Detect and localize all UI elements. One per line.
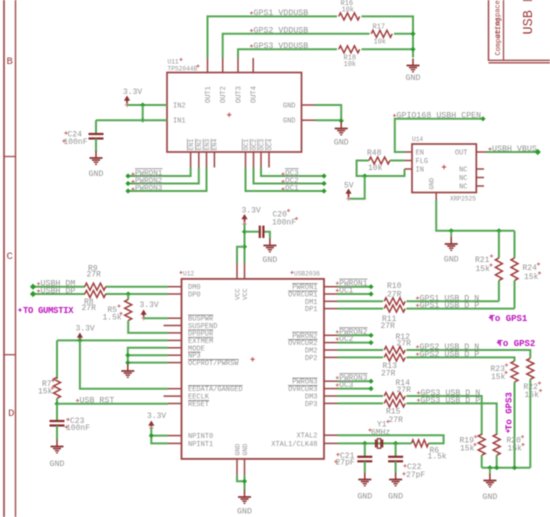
ground under C23 [50,440,65,470]
U12 pin NP3 [168,352,201,361]
net label PWRON3 [336,374,368,383]
U12 pin DP2 [305,355,338,363]
node OC2 wire [338,340,374,345]
crystal Y1 [376,439,383,449]
supply 3.3V for U11 IN [123,88,142,107]
svg-text:GND: GND [237,508,252,517]
U11 pin IN2 [153,103,186,111]
wire GPS3_USB_D_P to R20 column [406,403,496,435]
node PWRON2 wire to EN2 [125,168,198,187]
net label USBH_DM [37,280,75,289]
svg-text:15k: 15k [524,273,539,282]
capacitor C24 [89,134,104,139]
R19 value 15k [460,443,477,454]
U12 pin PWRON3 [292,378,337,387]
U12 pin DM0 [168,284,201,292]
wire junction down to IN1 [142,105,144,120]
wire R48 to FLG [390,160,405,162]
wire DP3 GPS3_USB_D_P [338,402,384,404]
net label GPIO168_USBH_CPEN [393,112,481,121]
svg-text:3.3V: 3.3V [123,88,142,97]
svg-text:3.3V: 3.3V [76,325,95,334]
svg-text:R24: R24 [523,264,538,273]
U12 pin OVRCUR1 [288,291,338,300]
label To GPS2 [497,339,536,349]
U14 pin GND [429,178,437,200]
R7 reference label [42,379,55,389]
frame left border [4,0,16,517]
R23 reference label [491,363,509,374]
title block frame [489,0,550,63]
junction on IN1 wire [140,118,145,123]
svg-text:USB H: USB H [522,0,537,35]
U12 pin DM3 [305,394,338,402]
svg-text:OUT2: OUT2 [220,86,228,103]
capacitor C23 [50,421,65,426]
svg-text:OC1: OC1 [243,139,250,151]
U14 pin NC 3 [459,184,484,192]
svg-text:OC3: OC3 [339,382,353,390]
C23 value 100nF [65,424,91,433]
U12 pin DP1 [305,306,338,314]
resistor R19 with column wire [478,434,485,468]
svg-text:EN4: EN4 [212,139,219,151]
U11 pin OC2 [250,139,257,168]
svg-text:To GPS3: To GPS3 [505,392,515,430]
R21 reference label [475,254,493,265]
svg-text:OC1: OC1 [339,288,353,296]
resistor R22 with column wire [527,358,534,467]
svg-text:10k: 10k [342,7,355,15]
R19 reference label [460,435,478,446]
op IC U11 TPS2044B body [167,73,302,153]
svg-text:27R: 27R [381,322,396,331]
wire GPS2_USB_D_N to R22 column [406,350,530,358]
svg-text:15k: 15k [525,391,540,400]
wire DM2 GPS2_USB_D_N [338,349,384,351]
U11 pin GND lower [283,118,316,126]
svg-text:IN: IN [416,167,424,175]
svg-text:GND: GND [283,103,296,111]
wire bottom right ground rail [482,465,531,470]
R23 value 15k [491,371,508,382]
U14 pin NC 1 [459,167,484,175]
svg-text:15k: 15k [508,445,523,454]
U12 pin SUSPEND [164,323,218,331]
svg-text:VCC: VCC [235,288,242,300]
svg-text:XRP2525: XRP2525 [450,196,476,203]
svg-text:10k: 10k [374,39,387,47]
svg-text:FLG: FLG [416,158,429,166]
svg-text:TO GUMSTIX: TO GUMSTIX [23,306,74,316]
capacitor C20 [260,226,264,238]
svg-text:15k: 15k [460,445,475,454]
resistor R16 [339,13,360,20]
net label GPS2_VDDUSB [250,27,308,36]
R20 value 15k [508,443,525,454]
ground under R16-R18 [406,59,421,84]
U14 pin EN [405,150,424,158]
net label PWRON2 [131,176,162,185]
U12 pin VCC 1 [235,263,242,300]
svg-text:IN2: IN2 [173,103,186,111]
wire USBH_VBUS from OUT [486,149,541,155]
svg-text:GND: GND [388,493,403,502]
node OC3 wire from U11 [261,168,327,179]
U12 pin GND 1 [235,444,242,476]
svg-text:To GPS2: To GPS2 [498,339,536,349]
svg-text:GND: GND [235,444,242,456]
U12 pin OVRCUR2 [288,340,338,349]
svg-text:27R: 27R [397,386,412,395]
R5 value 1.5k [103,312,123,322]
wire MODE NP3 OCPROT to ground [125,348,168,365]
net label GPS3_VDDUSB [250,42,308,51]
svg-text:GND: GND [242,444,249,456]
wire USB_RST to RESET [57,403,168,405]
Y1 value 6MHz [368,428,390,437]
svg-text:27pF: 27pF [406,471,425,480]
svg-text:GPS1_USB_D_P: GPS1_USB_D_P [420,302,480,311]
U11 pin OC4 [266,139,274,168]
svg-text:GND: GND [444,256,459,265]
svg-text:DP1: DP1 [305,306,318,314]
resistor R9 [85,283,106,290]
node USBH_DM wire [30,284,168,290]
net label OC3 [281,169,299,178]
resistor R18 [339,46,360,53]
resistor R48 [369,157,390,164]
resistor R13 [384,354,405,361]
wire C20 to ground [264,232,270,239]
svg-text:OC3: OC3 [258,139,265,151]
net label GPS3_USB_D_P [417,396,480,405]
svg-text:OC4: OC4 [266,139,273,151]
svg-text:GPS2_VDDUSB: GPS2_VDDUSB [254,27,309,36]
svg-text:27R: 27R [397,340,412,349]
R24 value 15k [524,271,541,282]
wire C24 to ground [95,139,97,152]
net label OC2 [336,335,354,344]
svg-text:GND: GND [406,74,421,83]
svg-text:To GPS1: To GPS1 [490,314,528,324]
U12 pin EECLK [164,394,210,402]
svg-text:USBH_DP: USBH_DP [41,287,76,296]
svg-text:GPS2_USB_D_P: GPS2_USB_D_P [420,350,480,359]
ground on rail below U14 [444,231,459,265]
svg-text:U11: U11 [168,59,179,66]
svg-text:NPINT0: NPINT0 [188,433,213,441]
svg-text:C: C [7,251,13,263]
svg-text:R21: R21 [475,256,490,265]
C22 reference label [403,463,421,472]
supply 3.3V for NPINT [147,412,166,430]
svg-text:GND: GND [429,178,436,190]
ground under C21 [357,473,372,502]
svg-text:R48: R48 [367,149,382,158]
svg-text:EN1: EN1 [188,139,195,151]
wire DM1 GPS1_USB_D_N [338,300,384,302]
U12 pin NPINT1 [168,441,213,449]
svg-text:USB_RST: USB_RST [80,397,115,406]
resistor R23 with column wire [511,361,518,468]
U12 pin OCPROT/PWRSW [168,360,239,369]
junction R17 column [410,31,415,36]
svg-text:3.3V: 3.3V [140,301,159,310]
U11 pin OC1 [242,139,250,168]
svg-text:OUT: OUT [455,150,468,158]
U12 pin OVRCUR3 [288,386,338,395]
svg-text:OUT3: OUT3 [236,86,244,103]
svg-text:D: D [8,408,14,420]
svg-text:15k: 15k [476,265,491,274]
wire GPS2_USB_D_P to R23 column [406,357,514,361]
net label PWRON3 [131,184,162,193]
U12 pin MODE [168,345,205,353]
wire 3.3V to NPINT0 NPINT1 [149,428,168,443]
resistor R17 [371,30,392,37]
svg-text:3.3V: 3.3V [147,412,166,421]
U12 value USB2036 [290,271,320,278]
U11 pin EN1 [187,139,195,168]
wire 3.3V to BUSPWR [144,317,168,319]
power switch U14 XRP2525 body [412,144,476,193]
C20 reference label [273,209,291,220]
C22 value 27pF [402,471,425,480]
svg-text:27R: 27R [387,291,402,300]
U12 pin PWRON1 [292,284,337,293]
svg-text:XTAL1/CLK48: XTAL1/CLK48 [271,441,317,449]
resistor R8 [85,291,106,298]
net label OC1 [336,286,354,295]
svg-text:R17: R17 [373,24,386,32]
svg-text:NC: NC [459,184,467,192]
U14 pin FLG [405,158,429,166]
wire EXTMEM with 3.3V junction [57,338,168,343]
U12 pin DP0 [168,292,201,300]
R22 value 15k [525,389,543,400]
net label PWRON1 [336,279,368,288]
svg-text:DP0: DP0 [188,292,201,300]
wire IN1 [96,119,167,121]
net label GPS1_VDDUSB [250,9,308,18]
svg-text:GND: GND [334,139,349,148]
U11 pin IN1 [153,118,186,126]
U11 pin OUT4 unconnected [251,58,259,103]
svg-text:GPIO168_USBH_CPEN: GPIO168_USBH_CPEN [397,112,482,121]
svg-text:GND: GND [89,170,104,179]
svg-text:RESET: RESET [188,401,209,409]
svg-text:GPS1_VDDUSB: GPS1_VDDUSB [254,9,309,18]
net label GPS3_USB_D_N [417,389,480,398]
resistor R10 [384,298,405,305]
U12 pin VCC 2 [242,263,249,300]
svg-text:GND: GND [482,493,497,502]
R21 value 15k [476,263,493,274]
net label GPS2_USB_D_N [416,343,479,352]
wire DP2 GPS2_USB_D_P [338,356,384,358]
resistor R14 [384,393,405,400]
supply 5V for U14 [344,181,354,201]
svg-text:27pF: 27pF [336,459,355,468]
wire IN1 to C24 [95,120,97,133]
net label OC3 [336,381,354,390]
wire DM3 GPS3_USB_D_N [338,395,384,397]
svg-text:100nF: 100nF [272,219,296,228]
svg-text:OC2: OC2 [251,139,258,151]
U11 pin GND upper [283,103,316,111]
net label PWRON2 [336,328,368,337]
svg-text:NC: NC [459,175,467,183]
U12 pin PWRON2 [292,332,337,341]
C24 value 100nF [62,138,88,147]
ground under C24 [89,151,104,179]
svg-text:aerospace: aerospace [495,0,503,38]
svg-text:DP2: DP2 [305,355,318,363]
net label USB_RST [76,397,114,406]
resistor R11 [384,305,405,312]
C21 value 27pF [334,459,355,468]
label TO GUMSTIX [18,306,74,316]
wire R48 left to 5V and IN [349,161,405,199]
wire GPIO168_USBH_CPEN to EN [395,116,486,152]
svg-text:GND: GND [50,460,65,469]
svg-text:EN2: EN2 [196,139,203,151]
U12 pin DP0PUR [168,330,214,339]
node OC1 wire [338,291,374,296]
node PWRON2 wire [338,333,374,338]
U11 pin EN2 [196,139,204,168]
supply 3.3V for BUSPWR [140,301,159,321]
wire XTAL1/CLK48 [338,441,412,446]
U12 reference label [179,271,194,278]
wire GPS2_VDDUSB [223,34,370,58]
U12 pin NPINT0 [168,433,213,441]
svg-text:VCC: VCC [242,288,249,300]
resistor R21 with wire [495,231,502,301]
wire 3.3V to IN2 [127,104,167,106]
wire GPS3_USB_D_N to R19 column [406,396,481,435]
U11 pin OUT1 [205,58,213,103]
junction R18 column [410,47,415,52]
svg-text:EN3: EN3 [204,139,211,151]
U12 pin XTAL1/CLK48 [271,441,337,449]
ground under MODE rail [121,364,134,377]
svg-text:EN: EN [416,150,424,158]
junction on IN2 wire [140,102,145,107]
svg-text:GPS3_VDDUSB: GPS3_VDDUSB [254,42,309,51]
R22 reference label [524,381,542,392]
usb hub IC U12 USB2036 body [182,279,325,459]
wire GPS1_VDDUSB [208,16,338,58]
resistor R20 with column wire [493,434,500,468]
ground right of U11 [334,122,349,148]
ground under C22 [388,473,403,502]
svg-text:OC2: OC2 [339,336,353,344]
svg-text:100nF: 100nF [66,424,90,433]
R24 reference label [523,262,541,273]
resistor R15 [384,400,405,407]
node OC1 wire from U11 [246,168,327,194]
svg-text:XTAL2: XTAL2 [296,433,317,441]
svg-text:15k: 15k [491,373,506,382]
wire EEDATA to 3.3V rail [80,340,168,388]
svg-text:GND: GND [262,256,277,265]
svg-text:USB2036: USB2036 [294,271,320,278]
U11 pin OC3 [258,139,266,168]
svg-text:IN1: IN1 [173,118,186,126]
label To GPS1 [489,314,528,324]
svg-text:USBH_VBUS: USBH_VBUS [492,145,537,154]
U11 pin EN4 [211,139,219,168]
svg-text:OUT1: OUT1 [205,86,213,103]
svg-text:6MHz: 6MHz [371,428,390,437]
wire GPS3_VDDUSB [238,49,337,58]
U14 pin NC 2 [459,175,484,183]
svg-text:NPINT1: NPINT1 [188,441,213,449]
svg-text:OCPROT/PWRSW: OCPROT/PWRSW [188,360,239,368]
svg-text:DP3: DP3 [305,401,318,409]
U12 pin GND 2 [242,444,249,476]
C21 reference label [336,452,354,461]
wire DP1 GPS1_USB_D_P [338,308,384,310]
U12 pin DM1 [305,299,338,307]
wire EXTMEM rail down to R7 [56,340,58,379]
wire XTAL2 loop [338,435,444,443]
svg-text:100nF: 100nF [64,138,88,147]
supply 3.3V for U12 VCC [241,206,261,226]
wire GPS1_USB_D_N to R21 [406,300,499,302]
wire C23 to ground [56,426,58,440]
net label GPS2_USB_D_P [416,350,479,359]
resistor R24 with wire [511,231,518,309]
resistor R12 [384,347,405,354]
R20 reference label [507,435,525,446]
net label GPS1_USB_D_P [416,302,479,311]
net label PWRON1 [131,169,162,178]
svg-text:GND: GND [283,118,296,126]
U12 pin XTAL2 [296,433,337,441]
U12 pin EXTMEM [168,337,213,346]
U12 pin DM2 [305,348,338,356]
node OC3 wire [338,386,374,391]
resistor R6 [412,440,429,447]
node OC2 wire from U11 [254,168,327,187]
C23 reference label [66,417,84,426]
U11 value label TPS2044B [168,64,200,72]
svg-text:27R: 27R [82,304,97,313]
svg-text:27R: 27R [87,271,102,280]
node PWRON3 wire [338,379,374,384]
label To GPS3 vertical [505,392,515,433]
resistor R7 [54,377,61,398]
Y1 reference label [377,420,390,429]
U14 pin IN [405,167,424,175]
svg-text:U14: U14 [412,136,423,143]
wire GPS1_USB_D_P to R24 [406,308,514,310]
U12 pin RESET [168,400,209,409]
node USBH_DP wire [30,291,168,297]
U11 pin OUT3 [236,58,244,103]
wire R7 to USB_RST junction [54,398,59,406]
ground bottom right [482,468,497,502]
ground under U12 [237,490,252,517]
node PWRON1 wire [338,284,374,289]
resistor R5 pull-up with wires [125,294,168,333]
capacitor C22 with wires [388,443,403,472]
U12 pin DP3 [305,401,338,409]
svg-text:GND: GND [357,493,372,502]
